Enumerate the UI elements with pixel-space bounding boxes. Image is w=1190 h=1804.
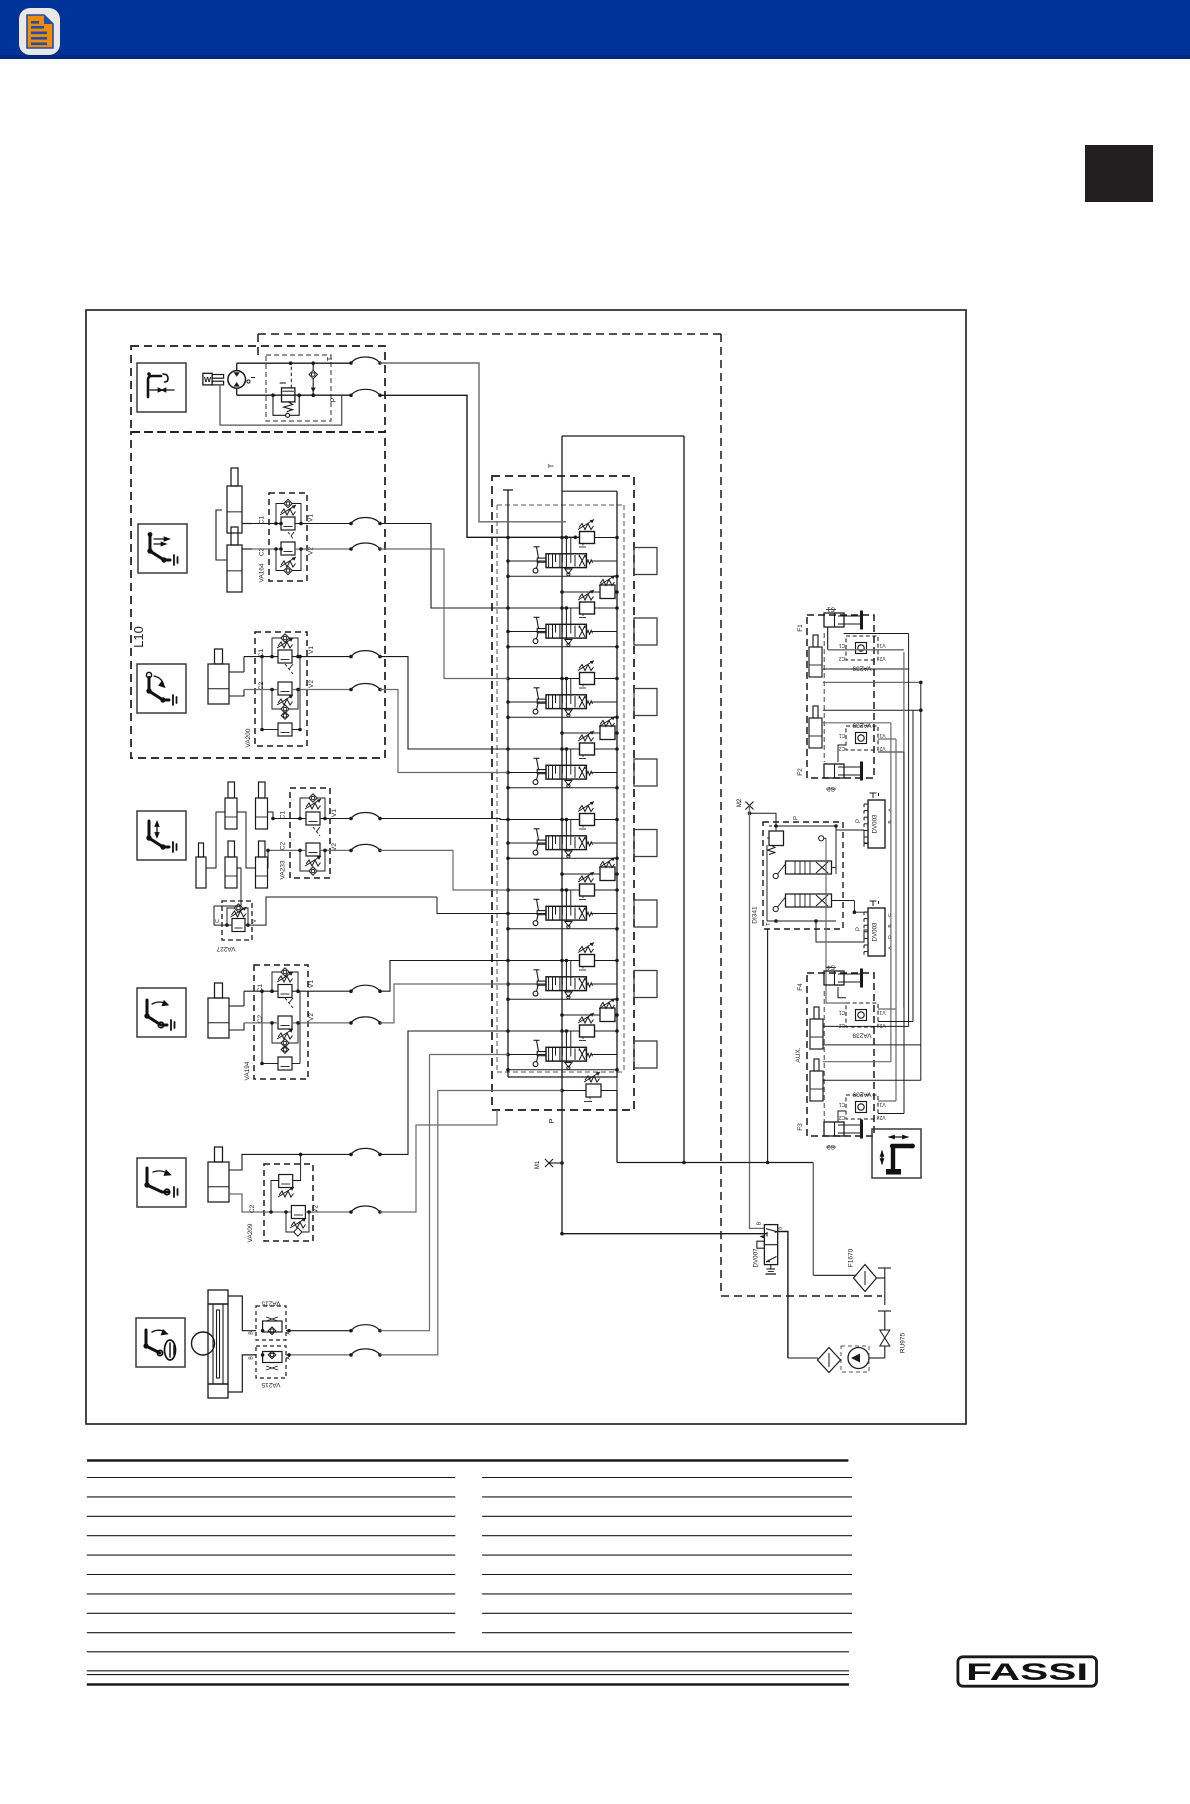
gear pump: [228, 371, 246, 389]
bank bottom pilot relief: [586, 1084, 601, 1097]
jib cylinder E small: [196, 857, 206, 888]
hose coupling: [349, 1153, 353, 1157]
svg-text:C1: C1: [839, 732, 846, 738]
check valve to P: [309, 370, 317, 378]
jib cluster links: [237, 812, 256, 868]
bank pilot relief: [580, 884, 595, 896]
DV007 entry P: [766, 1232, 768, 1237]
table top rule: [87, 1459, 848, 1462]
bank work port 4: [634, 759, 657, 786]
VA200 valve aux: [278, 723, 292, 736]
hose coupling: [349, 361, 353, 365]
bank spool valve section: [546, 1047, 586, 1061]
svg-text:C1: C1: [839, 1101, 846, 1107]
VA164 valve C2: [281, 542, 295, 555]
svg-text:V2: V2: [879, 655, 885, 661]
VA200 valve C1: [278, 650, 292, 663]
svg-text:DV003: DV003: [872, 814, 879, 833]
wire rotator upper up: [380, 1055, 508, 1331]
DI341 relief valve: [769, 831, 784, 846]
svg-text:C1: C1: [280, 810, 287, 819]
bank work port 3: [634, 689, 657, 716]
wire VA233 C1 to bank sec5: [380, 819, 508, 820]
extension cylinder: [810, 1019, 823, 1049]
bank work port 2: [634, 618, 657, 645]
relief bypass loop: [273, 395, 285, 415]
icon box 1st boom: [137, 664, 186, 713]
svg-text:VA194: VA194: [244, 1061, 251, 1080]
jib cylinder A: [225, 798, 237, 829]
svg-text:T: T: [327, 356, 334, 361]
stabilizer cylinder S4: [824, 971, 844, 985]
svg-text:VA200: VA200: [245, 728, 252, 747]
icon box 2nd boom: [138, 524, 187, 573]
bottom return line: [788, 1357, 818, 1359]
bank pilot relief: [580, 1025, 595, 1037]
icon box winch luffing: [137, 988, 186, 1037]
blue header bar: [0, 0, 1190, 59]
DV007 exit down: [778, 1232, 788, 1359]
hose coupling: [349, 688, 353, 692]
hose coupling: [349, 989, 353, 993]
stabilizer cylinder S1: [824, 613, 844, 627]
svg-text:V2: V2: [879, 1114, 885, 1120]
jib cylinder B: [256, 798, 268, 829]
svg-text:C: C: [215, 919, 221, 923]
svg-text:W: W: [204, 375, 212, 384]
VA194 valve aux: [278, 1057, 292, 1070]
svg-text:B: B: [887, 820, 893, 823]
bank spool valve section: [546, 765, 586, 779]
svg-text:VA209: VA209: [247, 1223, 254, 1242]
svg-text:C2: C2: [839, 745, 846, 751]
bank work port 8: [634, 1041, 657, 1068]
svg-text:C2: C2: [839, 1022, 846, 1028]
hose coupling: [349, 547, 353, 551]
valve VA239: [846, 636, 878, 660]
wire VA200 C1 to bank sec4: [380, 657, 508, 749]
bank spool valve section: [546, 695, 586, 709]
svg-text:P: P: [547, 1118, 556, 1123]
rotator lower line: [228, 1355, 256, 1392]
outer schematic border: [86, 310, 966, 1424]
svg-text:P: P: [794, 816, 800, 820]
svg-text:F1: F1: [797, 624, 804, 632]
svg-text:C1: C1: [839, 1009, 846, 1015]
VA209 valve V1: [279, 1175, 293, 1188]
T supply line down to bank: [380, 363, 566, 522]
valve RU975: [880, 1330, 890, 1346]
wire VA200 C2 to bank sec4 spool: [380, 690, 508, 773]
AUX wires: [823, 1061, 891, 1063]
svg-text:C2: C2: [249, 1204, 256, 1213]
VA194 valve C1: [278, 985, 292, 998]
VA233 valve C2: [306, 843, 320, 856]
P line to DV007: [562, 1233, 767, 1235]
bank work port 5: [634, 830, 657, 857]
black tab marker: [1085, 145, 1153, 202]
bank pilot relief: [580, 532, 595, 544]
bank T right bus: [683, 436, 685, 1163]
svg-text:D: D: [887, 935, 893, 939]
hose coupling: [349, 394, 353, 398]
hose coupling: [349, 1021, 353, 1025]
inner dashed relief box: [266, 355, 331, 421]
bank spool valve section: [546, 554, 586, 568]
telescopic cylinder: [227, 545, 242, 592]
DI341 tank return down: [767, 929, 769, 1163]
hydraulic cylinder: [208, 1162, 229, 1202]
valve bank outer dashed box: [492, 476, 634, 1110]
relief valve: [282, 388, 295, 402]
svg-text:VA233: VA233: [280, 860, 287, 879]
svg-text:V1: V1: [308, 514, 315, 522]
pump T line: [237, 362, 351, 364]
valve box VA233: [290, 788, 330, 878]
wire rotator lower up: [380, 1091, 562, 1355]
M2 test point: [746, 802, 754, 810]
wire VA164 C2 to bank sec3: [380, 549, 508, 679]
rotator upper line: [228, 1296, 256, 1331]
table bottom rules: [87, 1651, 849, 1653]
svg-text:C: C: [887, 913, 893, 917]
extension cylinder: [810, 1071, 823, 1101]
svg-text:S1: S1: [827, 606, 835, 613]
VA209 top line: [229, 1154, 351, 1170]
valve VA239: [846, 726, 878, 750]
VA233 valve C1: [306, 812, 320, 825]
pump P line: [237, 394, 351, 396]
svg-text:V2: V2: [308, 680, 315, 688]
svg-text:L10: L10: [131, 626, 146, 648]
jib cylinder C: [225, 857, 237, 888]
svg-text:T: T: [547, 463, 556, 468]
valve box VA194: [254, 965, 308, 1079]
suction check diamond: [818, 1348, 841, 1373]
DV007 valve: [764, 1225, 777, 1265]
svg-text:B: B: [887, 924, 893, 927]
hose coupling: [349, 655, 353, 659]
F1 F2 stabilizer dashed box: [807, 615, 874, 778]
wire VA194 C1 to bank sec7: [380, 961, 508, 992]
svg-text:F1670: F1670: [847, 1248, 854, 1267]
icon box winch: [137, 1158, 186, 1207]
bank pilot relief: [580, 814, 595, 826]
stabilizer cylinder S3: [824, 1122, 844, 1136]
bank pilot relief: [580, 673, 595, 685]
valve box VA209: [264, 1164, 313, 1241]
DV003 connection wires: [864, 830, 868, 843]
svg-text:V2: V2: [308, 1013, 315, 1021]
DI341 solenoid valve 1: [786, 861, 832, 874]
DI341 internal frame: [766, 845, 768, 921]
bank spool valve section: [546, 977, 586, 991]
valve VA215 upper: [256, 1306, 286, 1340]
wire VA194 C2 to bank sec7 spool: [380, 984, 508, 1023]
svg-text:V2: V2: [331, 843, 338, 851]
svg-text:C1: C1: [839, 642, 846, 648]
VA164 valve C1: [281, 517, 295, 530]
valve VA227: [222, 901, 252, 940]
hose coupling: [349, 522, 353, 526]
hydraulic cylinder: [208, 998, 229, 1038]
icon box PTO pump: [137, 363, 186, 412]
svg-text:V1: V1: [879, 732, 885, 738]
svg-text:V2: V2: [879, 1022, 885, 1028]
icon box load stability: [872, 1129, 921, 1178]
svg-text:M2: M2: [737, 798, 743, 807]
svg-text:V1: V1: [308, 980, 315, 988]
svg-text:C2: C2: [257, 1014, 264, 1023]
valve box VA164: [269, 493, 307, 581]
bank spool valve section: [546, 624, 586, 638]
hand pump circle: [848, 1348, 869, 1369]
svg-text:C2: C2: [280, 841, 287, 850]
svg-text:M1: M1: [535, 1160, 541, 1169]
icon box rotator: [136, 1318, 185, 1367]
svg-text:VA239: VA239: [852, 665, 871, 672]
bank work port 6: [634, 900, 657, 927]
relief pilot dashed: [290, 367, 292, 388]
bank bottom line: [508, 1076, 617, 1078]
wire VA233 C2 to bank sec6: [380, 850, 508, 890]
svg-text:V1: V1: [308, 646, 315, 654]
svg-text:FASSI: FASSI: [966, 1659, 1088, 1686]
valve bank inner dashed: [497, 504, 624, 506]
coupling break: [884, 1268, 886, 1305]
header document icon: [19, 8, 60, 55]
bank right bus top stub: [562, 490, 617, 492]
bank spool valve section: [546, 836, 586, 850]
bank spool valve section: [546, 906, 586, 920]
svg-text:C2: C2: [839, 655, 846, 661]
hydraulic cylinder: [208, 664, 229, 704]
hose coupling: [349, 817, 353, 821]
dashed enclosure L10 crane groups: [131, 432, 385, 758]
wire VA164 C1 to bank sec2: [380, 524, 508, 609]
FASSI logo: [958, 1657, 1097, 1686]
svg-text:DV007: DV007: [753, 1248, 760, 1267]
rotator body: [208, 1290, 228, 1304]
svg-text:F2: F2: [797, 768, 804, 776]
svg-text:F4: F4: [797, 983, 804, 991]
svg-text:S3: S3: [827, 1143, 835, 1150]
svg-text:C2: C2: [839, 1114, 846, 1120]
svg-text:VA164: VA164: [259, 563, 266, 582]
hose coupling: [349, 1353, 353, 1357]
hose coupling: [349, 849, 353, 853]
svg-text:DI341: DI341: [752, 906, 759, 924]
svg-text:S2: S2: [827, 785, 835, 792]
svg-text:DV003: DV003: [872, 922, 879, 941]
valve VA215 lower: [256, 1346, 286, 1378]
F4 wires: [838, 987, 846, 998]
svg-text:P: P: [331, 397, 338, 402]
rotary actuator circle: [192, 1332, 215, 1355]
svg-text:V2: V2: [308, 547, 315, 555]
central dashed boundary: [258, 333, 721, 335]
P supply line down to bank: [380, 395, 580, 537]
valve VA239: [846, 1095, 878, 1119]
pump motor W box: [203, 373, 212, 385]
manifold DV003: [868, 908, 885, 956]
svg-text:F3: F3: [797, 1123, 804, 1131]
telescopic cylinder: [227, 486, 242, 533]
bank right inner bus: [616, 491, 618, 1078]
bank work port 1: [634, 548, 657, 575]
svg-text:P: P: [856, 819, 862, 823]
svg-text:P: P: [856, 927, 862, 931]
svg-text:V1: V1: [879, 1101, 885, 1107]
extension cylinder: [809, 718, 822, 748]
hose coupling: [349, 1329, 353, 1333]
T return outlet line: [617, 1162, 813, 1164]
F2 wires: [823, 709, 921, 711]
F3 wires: [838, 1111, 846, 1122]
extension cylinder: [809, 647, 822, 677]
svg-text:V1: V1: [879, 1009, 885, 1015]
valve box VA200: [255, 632, 307, 746]
right vertical wires: [903, 652, 905, 1007]
jib cylinder D: [256, 857, 268, 888]
bank pilot relief: [580, 602, 595, 614]
svg-text:C1: C1: [259, 515, 266, 524]
wire VA209 top to bank sec8: [380, 1031, 508, 1154]
svg-text:VA239: VA239: [852, 1091, 871, 1098]
manifold DV003: [868, 800, 885, 848]
DI341 dashed box: [763, 822, 843, 929]
VA209 valve V2: [291, 1206, 305, 1219]
svg-text:S4: S4: [827, 964, 835, 971]
VA194 valve C2: [278, 1016, 292, 1029]
VA200 valve C2: [278, 682, 292, 695]
svg-text:RU975: RU975: [900, 1332, 907, 1353]
icon box jib extension: [137, 811, 186, 860]
wire VA209 C2 under bank: [380, 1110, 497, 1212]
svg-text:VA215: VA215: [261, 1381, 280, 1388]
svg-text:V: V: [252, 919, 258, 923]
pump suction tank line: [220, 385, 342, 425]
M1 test point: [549, 1162, 562, 1164]
dashed enclosure pump group: [131, 346, 385, 432]
DI341 solenoid valve 2: [786, 894, 832, 907]
svg-text:a: a: [778, 1227, 784, 1230]
bank pilot relief: [580, 743, 595, 755]
hose coupling: [349, 1210, 353, 1214]
bank work port 7: [634, 971, 657, 998]
svg-text:AUX.: AUX.: [795, 1047, 802, 1062]
bank P bus: [561, 436, 563, 1234]
bank left bus: [507, 490, 509, 1077]
stabilizer cylinder S2: [824, 764, 844, 778]
bank pilot relief: [580, 955, 595, 967]
wire VA227 to bank sec6 spool: [437, 897, 508, 914]
svg-text:V2: V2: [879, 745, 885, 751]
svg-text:VA239: VA239: [852, 1032, 871, 1039]
svg-text:V1: V1: [879, 642, 885, 648]
F1 wires: [827, 627, 829, 650]
svg-text:V1: V1: [331, 809, 338, 817]
svg-text:VA227: VA227: [216, 945, 235, 952]
valve VA239: [846, 1003, 878, 1027]
F4 AUX F3 dashed box: [807, 973, 874, 1136]
svg-text:VA215: VA215: [261, 1300, 280, 1307]
bank top header line: [562, 435, 684, 437]
